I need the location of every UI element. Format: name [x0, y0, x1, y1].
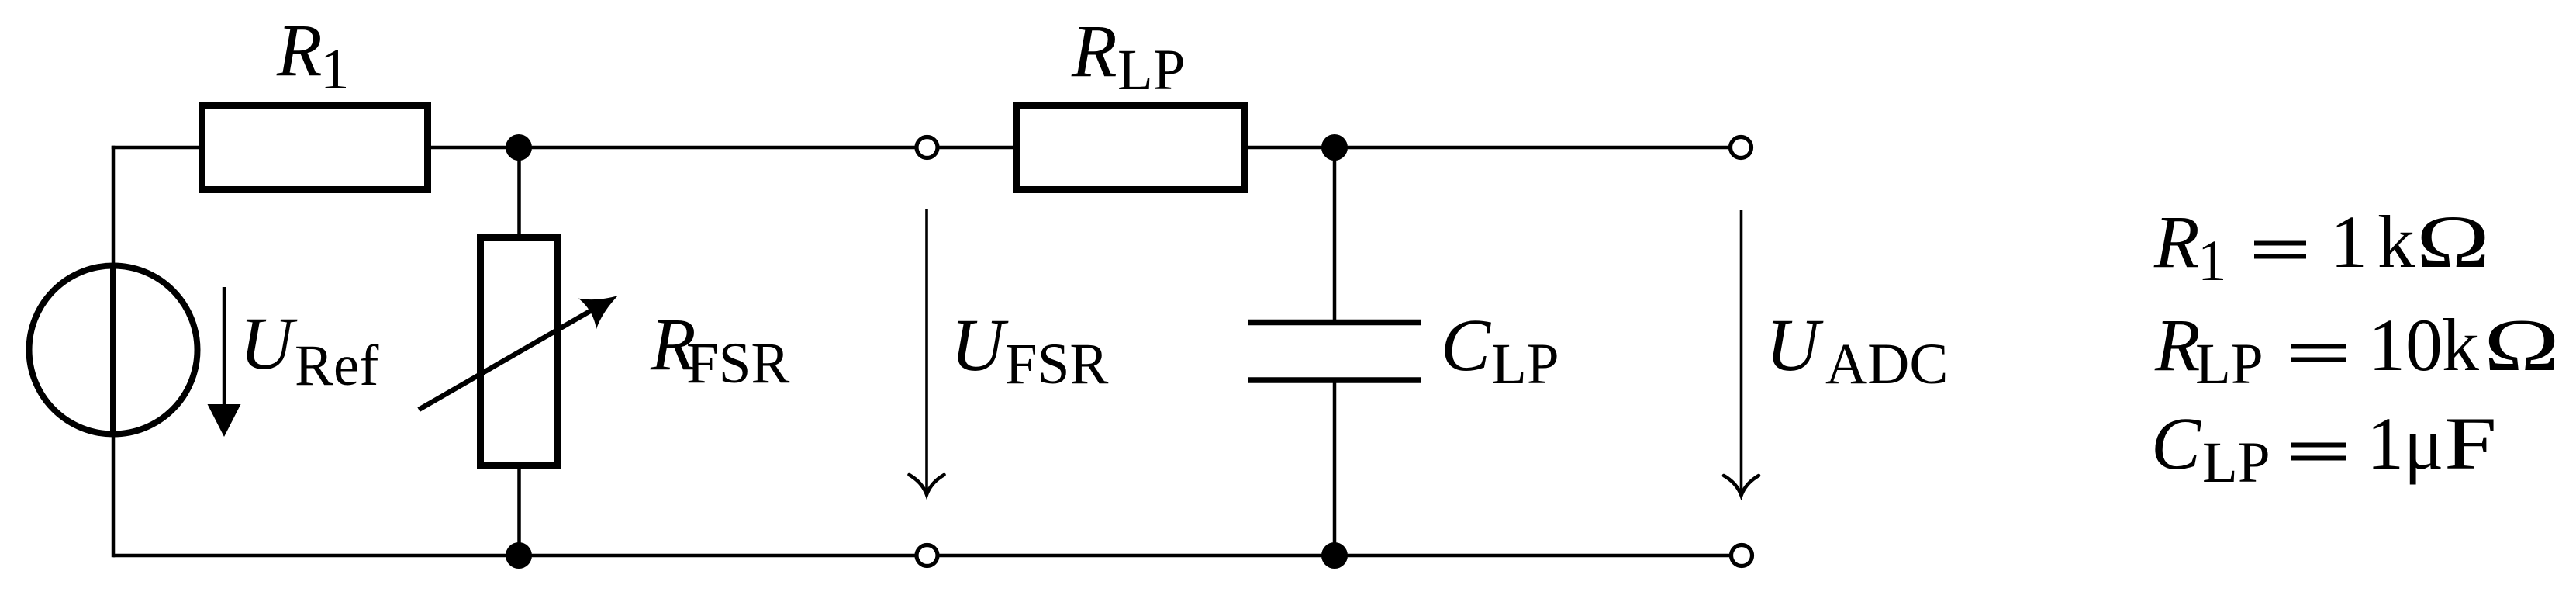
svg-text:μ: μ: [2404, 402, 2443, 485]
label U_FSR: [951, 303, 1108, 396]
svg-text:Ref: Ref: [295, 334, 378, 398]
wire left vertical: [112, 146, 116, 558]
node B (RFSR junction, bottom): [506, 542, 532, 569]
terminal T3 (U_ADC top, open): [1731, 137, 1752, 158]
svg-text:1: 1: [320, 37, 350, 102]
terminal T1 (U_FSR top, open): [917, 137, 938, 158]
svg-text:R: R: [2153, 200, 2200, 283]
svg-text:U: U: [951, 303, 1009, 386]
wire top: RLP to terminal T3: [1243, 146, 1731, 150]
wire: node A to RFSR top: [517, 147, 521, 239]
voltage source U_Ref: [29, 263, 198, 437]
label U_Ref: [240, 302, 378, 398]
terminal T4 (U_ADC bottom, open): [1732, 545, 1752, 566]
value label RLP = 10 kOhm: [2154, 303, 2560, 396]
node A (R1/RFSR junction, top): [506, 134, 532, 161]
arrow U_FSR: [910, 209, 944, 495]
svg-text:F: F: [2444, 402, 2497, 485]
label CLP: [1441, 303, 1559, 396]
svg-text:Ω: Ω: [2484, 303, 2560, 386]
label RLP: [1071, 9, 1186, 102]
svg-text:LP: LP: [2195, 332, 2263, 396]
wire bottom: terminal T2 to terminal T4: [938, 554, 1731, 558]
svg-text:U: U: [1766, 303, 1824, 386]
node D (CLP junction, bottom): [1321, 542, 1348, 569]
wire bottom left: source to node B: [113, 554, 917, 558]
resistor RLP: [1017, 106, 1245, 190]
svg-text:R: R: [2154, 303, 2201, 386]
svg-text:ADC: ADC: [1825, 332, 1948, 396]
label R1: [276, 9, 350, 102]
wire: RFSR bottom to node B: [517, 465, 521, 555]
svg-text:Ω: Ω: [2416, 200, 2490, 283]
value label R1 = 1 kOhm: [2153, 200, 2490, 293]
svg-text:LP: LP: [1491, 332, 1559, 396]
svg-text:1: 1: [2367, 402, 2404, 485]
arrow U_Ref: [208, 287, 241, 437]
svg-text:FSR: FSR: [1005, 332, 1108, 396]
value label CLP = 1 uF: [2151, 402, 2497, 495]
svg-text:LP: LP: [2202, 431, 2270, 495]
svg-text:k: k: [2442, 303, 2479, 386]
terminal T2 (U_FSR bottom, open): [917, 545, 938, 566]
wire top: terminal T1 to RLP: [938, 146, 1018, 150]
svg-text:10: 10: [2368, 303, 2443, 386]
label RFSR: [650, 303, 789, 396]
svg-text:R: R: [276, 9, 323, 92]
svg-text:C: C: [1441, 303, 1491, 386]
label U_ADC: [1766, 303, 1948, 396]
resistor R1: [202, 106, 428, 190]
svg-text:LP: LP: [1117, 38, 1186, 102]
svg-text:C: C: [2151, 402, 2201, 485]
resistor RFSR (variable): [419, 238, 627, 466]
capacitor CLP: [1248, 323, 1421, 381]
svg-text:k: k: [2377, 200, 2415, 283]
wire: CLP bottom plate to node D: [1333, 381, 1337, 555]
svg-text:1: 1: [2198, 229, 2227, 293]
svg-text:R: R: [1071, 9, 1117, 92]
svg-text:FSR: FSR: [686, 331, 789, 396]
arrow U_ADC: [1724, 210, 1759, 496]
wire top: R1 to terminal T1: [427, 146, 917, 150]
wire top: source to R1: [112, 146, 203, 150]
svg-text:U: U: [240, 302, 298, 385]
svg-text:1: 1: [2330, 200, 2367, 283]
node C (RLP/CLP junction, top): [1321, 134, 1348, 161]
wire: node C to CLP top plate: [1333, 147, 1337, 321]
